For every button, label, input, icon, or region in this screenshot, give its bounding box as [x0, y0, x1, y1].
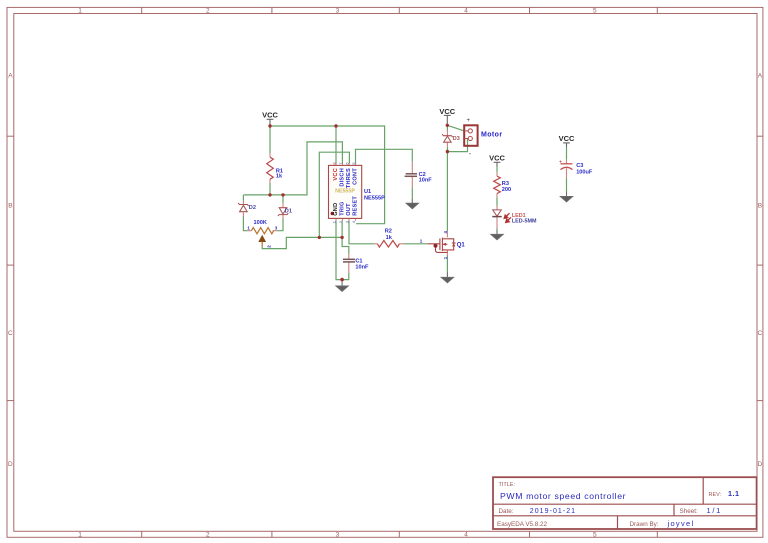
svg-text:DISCH: DISCH [339, 168, 345, 187]
svg-text:TITLE:: TITLE: [499, 482, 516, 488]
svg-text:VCC: VCC [333, 168, 339, 181]
svg-text:A: A [8, 72, 13, 79]
svg-text:NE555P: NE555P [364, 196, 385, 202]
svg-text:D: D [8, 461, 13, 468]
svg-text:Drawn By:: Drawn By: [630, 521, 659, 528]
svg-text:RESET: RESET [352, 196, 358, 216]
svg-text:100K: 100K [254, 220, 267, 226]
svg-text:1: 1 [78, 532, 82, 539]
svg-text:5: 5 [593, 8, 597, 15]
svg-text:Motor: Motor [481, 132, 502, 139]
svg-text:2: 2 [266, 245, 271, 248]
svg-text:4: 4 [464, 532, 468, 539]
svg-text:OUT: OUT [346, 203, 352, 216]
svg-text:D2: D2 [249, 205, 256, 211]
svg-text:Q1: Q1 [457, 243, 466, 249]
svg-text:Sheet:: Sheet: [680, 508, 698, 515]
svg-text:10nF: 10nF [419, 178, 433, 184]
svg-text:EasyEDA V5.8.22: EasyEDA V5.8.22 [497, 521, 548, 528]
svg-text:2019-01-21: 2019-01-21 [530, 508, 576, 515]
svg-text:3: 3 [336, 8, 340, 15]
svg-text:REV:: REV: [709, 492, 722, 498]
svg-text:Date:: Date: [499, 508, 514, 515]
svg-text:D: D [758, 461, 763, 468]
svg-text:-: - [469, 151, 472, 158]
svg-text:1: 1 [443, 256, 448, 259]
svg-text:VCC: VCC [489, 154, 505, 163]
svg-text:D1: D1 [285, 208, 292, 214]
svg-text:D3: D3 [453, 136, 460, 142]
svg-text:A: A [758, 72, 763, 79]
svg-text:4: 4 [443, 231, 448, 234]
svg-text:joyvel: joyvel [667, 519, 695, 528]
svg-text:+: + [467, 118, 471, 124]
svg-text:PWM motor speed controller: PWM motor speed controller [500, 491, 626, 501]
svg-text:4: 4 [464, 8, 468, 15]
svg-text:1.1: 1.1 [728, 489, 740, 498]
svg-text:VCC: VCC [262, 111, 278, 120]
svg-text:VCC: VCC [439, 107, 455, 116]
svg-text:NE555P: NE555P [335, 188, 355, 194]
svg-text:R2: R2 [385, 229, 392, 235]
svg-text:C: C [8, 330, 13, 337]
svg-text:200: 200 [502, 187, 511, 193]
svg-text:GND: GND [333, 203, 339, 216]
svg-text:2: 2 [206, 8, 210, 15]
svg-text:6: 6 [344, 162, 349, 165]
svg-text:B: B [758, 203, 762, 210]
svg-text:1: 1 [247, 225, 250, 230]
svg-text:B: B [8, 203, 12, 210]
svg-text:CONT: CONT [352, 168, 358, 185]
svg-text:1k: 1k [386, 235, 393, 241]
svg-text:1k: 1k [276, 173, 283, 179]
svg-text:C3: C3 [576, 163, 583, 169]
svg-text:THRES: THRES [346, 168, 352, 188]
svg-text:U1: U1 [364, 189, 371, 195]
svg-text:3: 3 [275, 225, 278, 230]
svg-text:4: 4 [351, 220, 356, 223]
svg-text:+: + [559, 160, 562, 166]
svg-text:10nF: 10nF [355, 264, 369, 270]
svg-text:5: 5 [593, 532, 597, 539]
svg-text:1: 1 [78, 8, 82, 15]
svg-text:2: 2 [206, 532, 210, 539]
svg-text:LED-5MM: LED-5MM [512, 219, 537, 225]
svg-text:100uF: 100uF [576, 169, 593, 175]
svg-text:TRIG: TRIG [339, 201, 345, 215]
svg-text:1/1: 1/1 [707, 506, 723, 515]
svg-text:VCC: VCC [559, 134, 575, 143]
svg-text:C: C [758, 330, 763, 337]
svg-text:3: 3 [336, 532, 340, 539]
svg-text:1: 1 [420, 239, 423, 244]
